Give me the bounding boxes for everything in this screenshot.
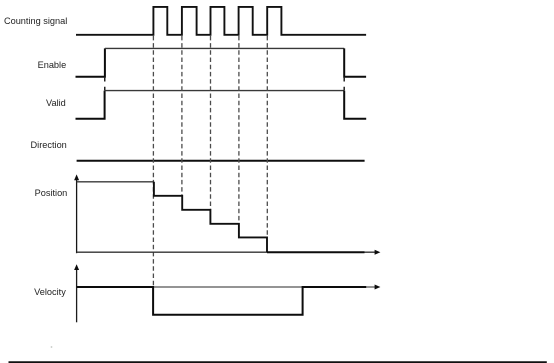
wire position staircase top level <box>77 181 154 183</box>
wire enable falling edge and low tail <box>344 48 366 76</box>
node dashed line 5 <box>266 36 268 237</box>
velocity x-axis arrow <box>375 285 381 290</box>
wire enable low and rising edge <box>76 48 105 76</box>
position y-axis <box>76 178 78 253</box>
bottom rule <box>9 361 547 363</box>
wire position baseline thick segment <box>267 251 365 253</box>
position x-axis <box>77 251 378 253</box>
wire velocity waveform <box>77 287 367 315</box>
node dashed line 3 <box>210 36 212 209</box>
position x-axis arrow <box>375 250 381 255</box>
wire valid low and rising edge <box>76 91 105 119</box>
stray period mark <box>51 346 53 348</box>
velocity y-axis <box>76 267 78 322</box>
wire counting-signal waveform (5 pulses) <box>76 7 366 35</box>
velocity x-axis (thin) <box>77 286 378 288</box>
velocity y-axis arrow <box>74 264 79 270</box>
wire dash connector between enable and valid edges (right) <box>343 77 345 90</box>
wire valid high level <box>105 90 345 92</box>
svg-text:Direction: Direction <box>31 140 67 150</box>
svg-text:Enable: Enable <box>38 60 67 70</box>
wire valid falling edge and low tail <box>344 91 366 119</box>
node dashed line 4 <box>238 36 240 223</box>
node dashed line 1 (first count edge, extends to velocity axis) <box>152 36 154 286</box>
node dashed line 2 <box>181 36 183 195</box>
wire direction line <box>77 160 365 162</box>
wire dash connector between enable and valid edges (left) <box>104 77 106 90</box>
svg-text:Velocity: Velocity <box>34 287 66 297</box>
svg-text:Valid: Valid <box>46 98 66 108</box>
svg-text:Counting signal: Counting signal <box>4 16 67 26</box>
wire position staircase steps <box>154 182 267 252</box>
position y-axis arrow <box>74 174 79 180</box>
wire enable high level <box>105 47 344 49</box>
svg-text:Position: Position <box>35 188 68 198</box>
